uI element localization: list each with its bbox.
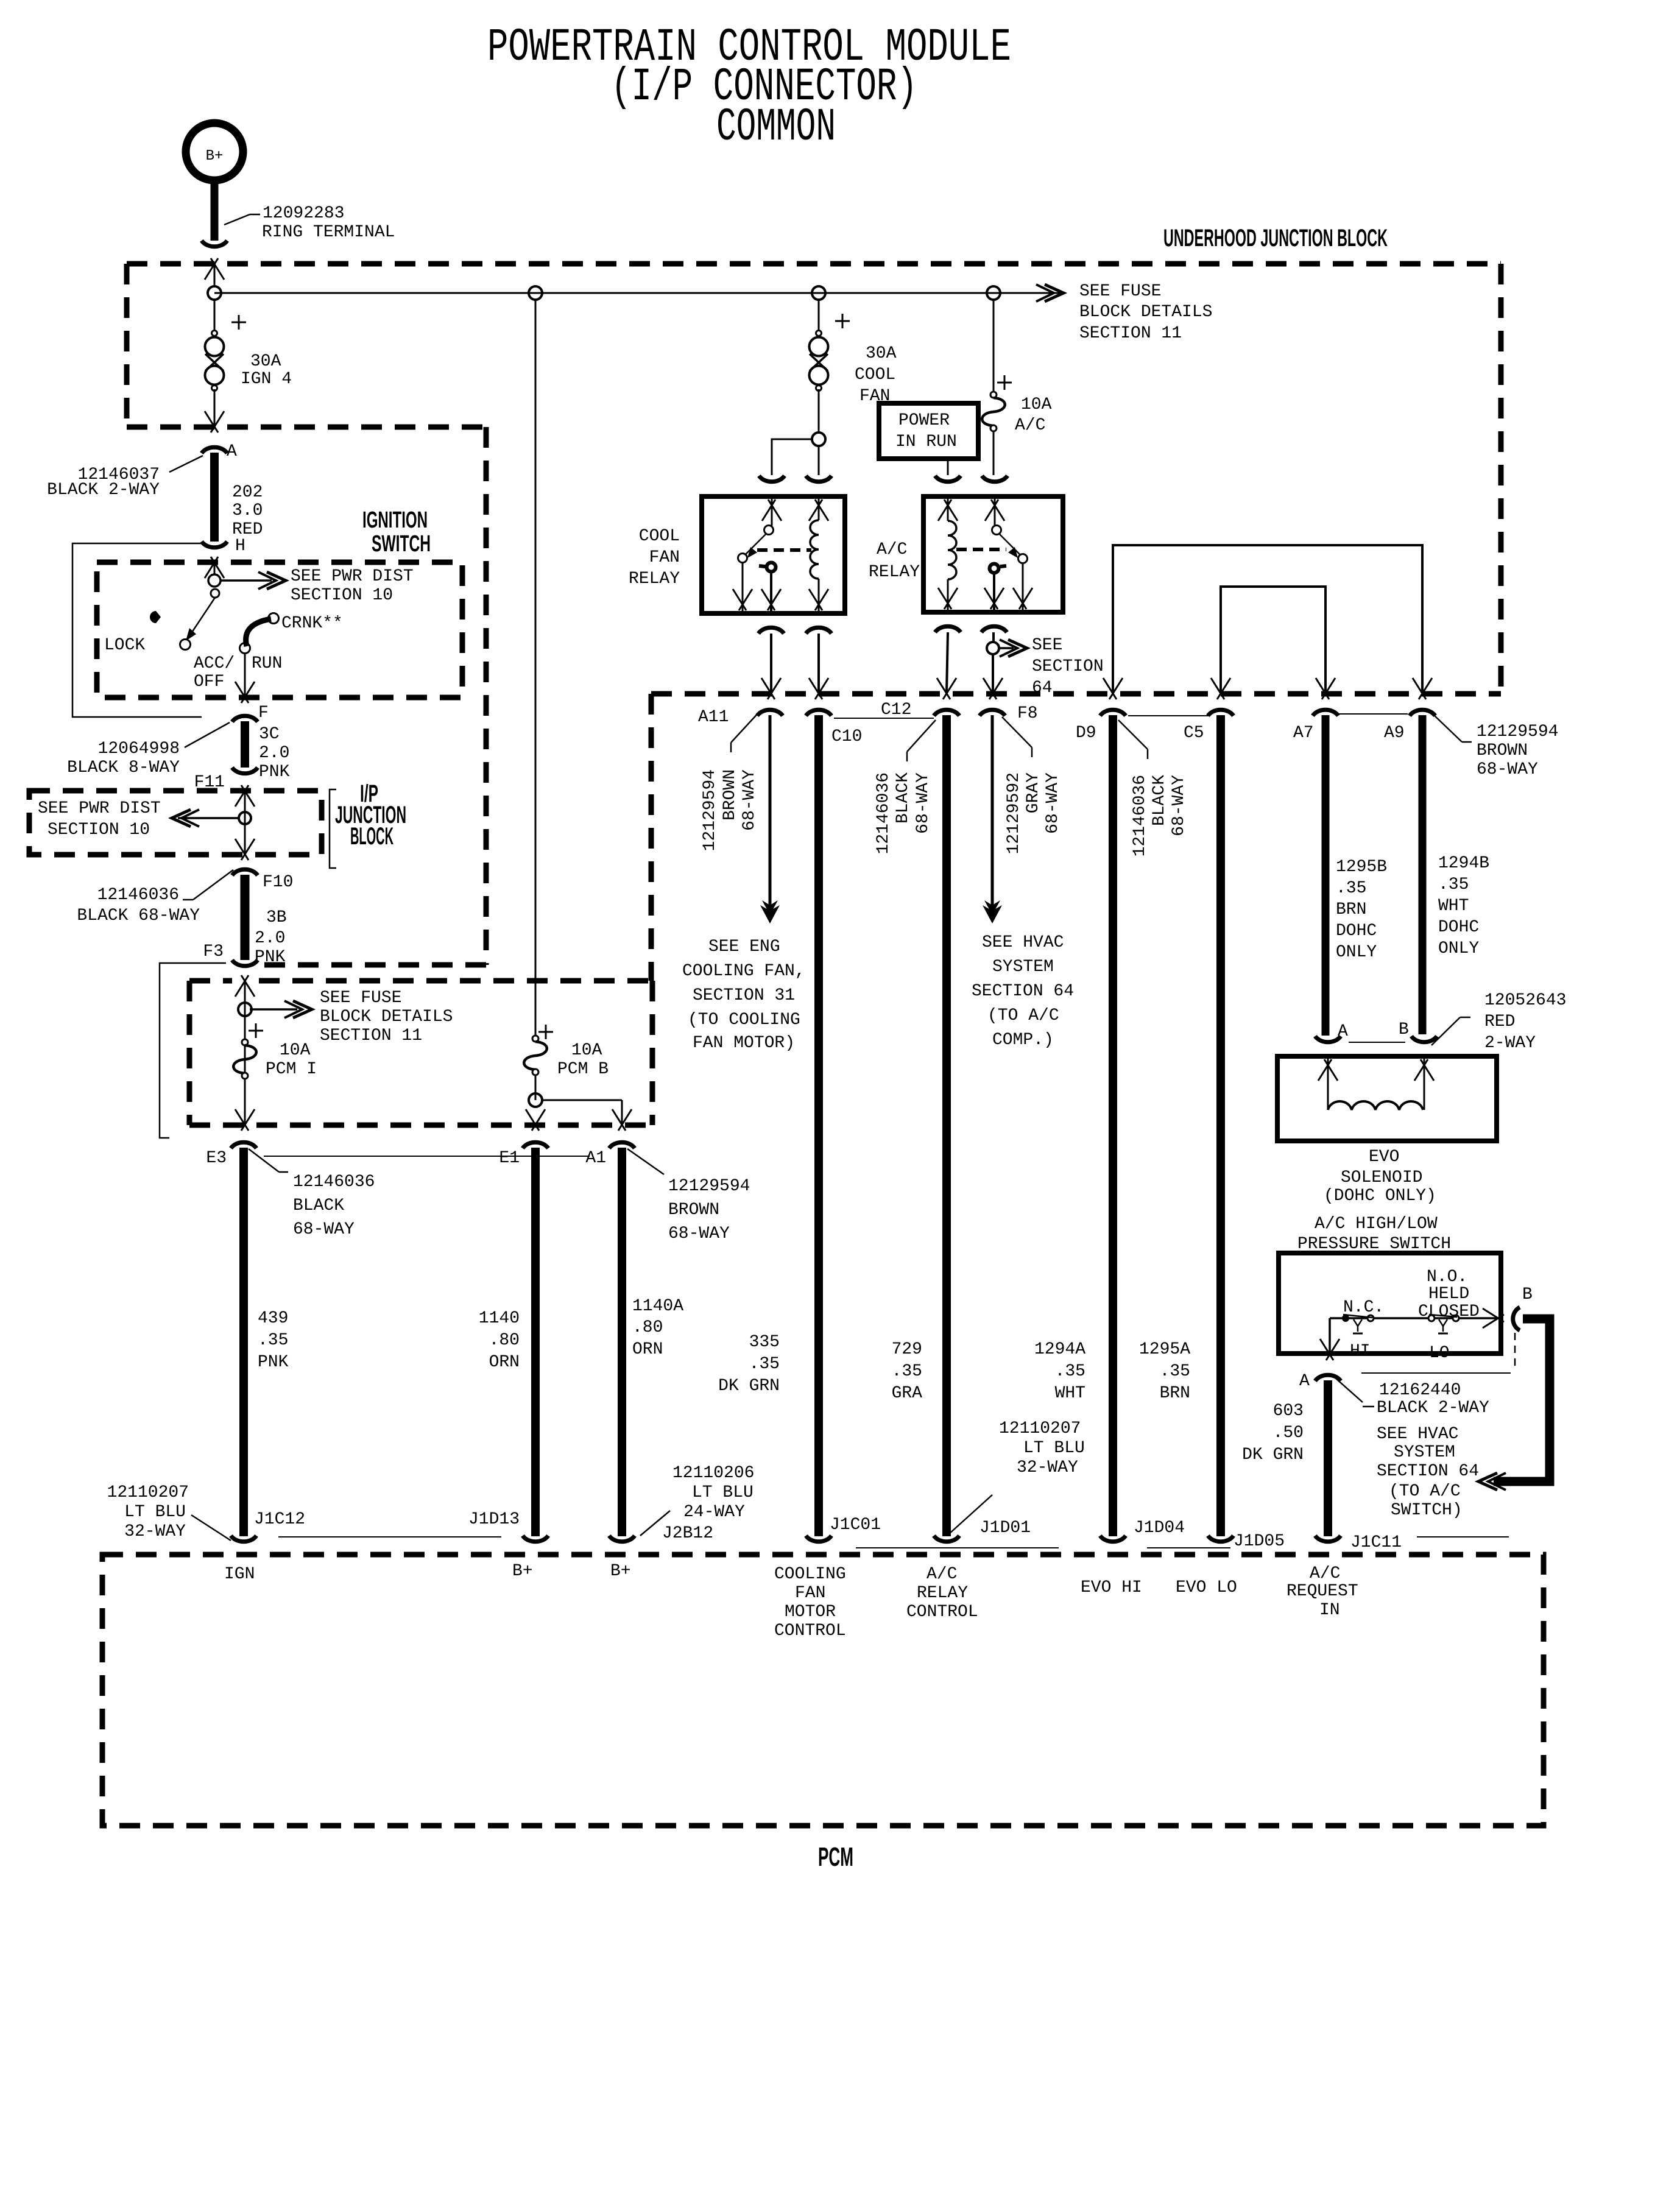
svg-text:(TO COOLING: (TO COOLING [688, 1011, 800, 1029]
connector J1C01 [806, 1536, 831, 1542]
svg-text:729: 729 [892, 1340, 922, 1359]
node bus junction at A/C fuse [987, 286, 1000, 300]
wire 335 .35 DK GRN to PCM [814, 715, 823, 1536]
node bus junction at IGN4 fuse [208, 286, 221, 300]
svg-text:3.0: 3.0 [232, 501, 263, 520]
svg-text:.35: .35 [1055, 1362, 1085, 1381]
svg-text:PNK: PNK [255, 948, 286, 967]
svg-text:SEE FUSE: SEE FUSE [1079, 282, 1161, 301]
svg-text:PCM: PCM [818, 1842, 853, 1872]
svg-text:J1D05: J1D05 [1234, 1532, 1285, 1551]
lock detent mark [150, 611, 161, 623]
svg-text:SECTION 64: SECTION 64 [972, 982, 1074, 1001]
svg-text:SECTION 31: SECTION 31 [693, 986, 795, 1005]
svg-text:E3: E3 [206, 1149, 227, 1168]
svg-text:FAN: FAN [795, 1584, 825, 1603]
svg-text:202: 202 [232, 483, 263, 502]
svg-text:J1C01: J1C01 [830, 1516, 881, 1534]
node PCM B output junction [535, 1075, 537, 1100]
svg-text:RELAY: RELAY [629, 570, 680, 588]
connector A7 [1313, 710, 1338, 716]
svg-text:2-WAY: 2-WAY [1484, 1034, 1536, 1053]
svg-text:B+: B+ [610, 1562, 631, 1581]
wire A11 to cooling fan motor [769, 715, 772, 920]
svg-text:12129594: 12129594 [668, 1177, 750, 1196]
module PCM dashed box [102, 1555, 1544, 1826]
relay A/C RELAY box [923, 496, 1063, 612]
svg-text:SEE PWR DIST: SEE PWR DIST [38, 799, 161, 818]
svg-text:BLACK 68-WAY: BLACK 68-WAY [77, 906, 200, 925]
svg-text:SEE FUSE: SEE FUSE [320, 989, 401, 1008]
svg-text:1295B: 1295B [1336, 858, 1387, 877]
wire 1295A .35 BRN to PCM [1216, 715, 1225, 1536]
svg-text:PNK: PNK [258, 1353, 289, 1372]
connector A of pressure switch [1315, 1375, 1341, 1381]
box POWER IN RUN [879, 403, 978, 459]
cool fan relay actuation link [757, 548, 811, 552]
svg-text:12162440: 12162440 [1379, 1381, 1461, 1400]
wire RUN to connector F [244, 653, 246, 697]
svg-text:12146036: 12146036 [874, 772, 893, 854]
contact CRNK [269, 613, 279, 624]
cool fan relay coil [810, 520, 819, 579]
fuse 10A PCM I [249, 1030, 263, 1032]
underhood junction block fuse sub-box [189, 978, 232, 984]
svg-text:BLACK 8-WAY: BLACK 8-WAY [67, 758, 180, 777]
svg-text:12129592: 12129592 [1004, 772, 1023, 854]
svg-text:N.O.: N.O. [1427, 1268, 1467, 1287]
svg-text:DK GRN: DK GRN [718, 1377, 780, 1396]
node I/P junction block tap [239, 812, 251, 824]
svg-text:REQUEST: REQUEST [1286, 1582, 1358, 1601]
svg-text:439: 439 [258, 1309, 288, 1328]
fuse 30A COOL FAN [816, 331, 822, 336]
svg-text:BLACK 2-WAY: BLACK 2-WAY [47, 481, 160, 500]
arrow to fuse block details [1045, 284, 1064, 302]
svg-text:DOHC: DOHC [1438, 918, 1479, 937]
branch wire to relay switch pin [772, 439, 813, 475]
svg-text:SOLENOID: SOLENOID [1341, 1168, 1422, 1187]
svg-text:J1D13: J1D13 [468, 1510, 520, 1529]
svg-text:3B: 3B [266, 908, 287, 927]
wire 439 .35 PNK [239, 1148, 248, 1536]
wire 3C 2.0 PNK [241, 721, 249, 768]
svg-text:J1C12: J1C12 [254, 1510, 305, 1529]
svg-text:F10: F10 [263, 873, 293, 892]
wire 729 .35 GRA to PCM [942, 715, 951, 1536]
svg-text:A11: A11 [698, 708, 729, 727]
svg-text:A: A [1338, 1022, 1348, 1041]
svg-text:2.0: 2.0 [255, 929, 285, 948]
wire 603 .50 DK GRN [1324, 1380, 1332, 1536]
svg-text:30A: 30A [250, 352, 281, 371]
svg-text:BLOCK DETAILS: BLOCK DETAILS [1079, 303, 1212, 322]
svg-text:.80: .80 [489, 1331, 520, 1350]
node bus junction at PCM B feed [529, 286, 542, 300]
node PCM I tap [238, 1003, 252, 1016]
connector F10 12146036 [232, 869, 258, 875]
svg-text:CRNK**: CRNK** [281, 614, 343, 633]
svg-text:UNDERHOOD JUNCTION BLOCK: UNDERHOOD JUNCTION BLOCK [1163, 225, 1388, 252]
svg-text:OFF: OFF [194, 673, 224, 691]
cool fan relay switch pin [762, 500, 775, 521]
svg-text:B: B [1399, 1020, 1409, 1039]
svg-text:PCM I: PCM I [266, 1060, 317, 1079]
connector J1D13 [523, 1536, 548, 1542]
svg-text:POWER: POWER [898, 411, 950, 430]
svg-text:.35: .35 [749, 1355, 780, 1374]
svg-text:RELAY: RELAY [917, 1584, 968, 1603]
connector F8 [979, 710, 1005, 716]
relay COOL FAN RELAY box [702, 496, 845, 613]
svg-text:J1C11: J1C11 [1350, 1533, 1402, 1552]
svg-text:ORN: ORN [489, 1353, 520, 1372]
wire relay to F8 [992, 632, 995, 643]
connector F 12064998 [232, 716, 258, 722]
svg-text:SWITCH: SWITCH [372, 531, 431, 557]
svg-text:1140: 1140 [479, 1309, 520, 1328]
svg-text:SEE: SEE [1032, 636, 1062, 655]
svg-text:B+: B+ [512, 1562, 533, 1581]
wire 1140 .80 ORN [531, 1148, 540, 1536]
cool fan relay output terminals [758, 627, 784, 634]
svg-text:N.C.: N.C. [1343, 1298, 1384, 1317]
svg-text:68-WAY: 68-WAY [293, 1220, 355, 1239]
svg-text:BLACK: BLACK [1150, 775, 1169, 826]
wire into fuse box [235, 975, 249, 997]
svg-text:COMP.): COMP.) [992, 1031, 1054, 1050]
svg-text:A1: A1 [585, 1149, 606, 1168]
pressure switch internal line [1330, 1317, 1497, 1319]
wire 1294A .35 WHT to PCM [1109, 715, 1117, 1536]
svg-text:EVO HI: EVO HI [1081, 1578, 1142, 1597]
svg-text:12110206: 12110206 [672, 1464, 754, 1483]
node A/C control tap [987, 642, 999, 654]
wire into ignition switch [205, 557, 218, 578]
svg-text:HI: HI [1350, 1342, 1371, 1361]
svg-text:A: A [227, 442, 237, 461]
svg-text:SYSTEM: SYSTEM [1394, 1443, 1455, 1462]
connector end of ring terminal wire [202, 241, 227, 247]
svg-text:CLOSED: CLOSED [1418, 1302, 1480, 1321]
svg-text:335: 335 [749, 1333, 780, 1352]
connector B of EVO solenoid [1411, 1036, 1437, 1042]
fuse 10A PCM B [538, 1031, 553, 1033]
A/C relay actuation link [956, 548, 1006, 551]
svg-text:F3: F3 [203, 942, 224, 961]
svg-text:CONTROL: CONTROL [774, 1622, 846, 1640]
svg-text:A7: A7 [1293, 724, 1314, 743]
F3 bracket [160, 963, 226, 1138]
svg-text:68-WAY: 68-WAY [1170, 775, 1188, 836]
svg-text:(DOHC ONLY): (DOHC ONLY) [1324, 1187, 1436, 1206]
svg-text:B+: B+ [206, 148, 224, 164]
svg-text:COOLING: COOLING [774, 1565, 846, 1584]
svg-text:SEE ENG: SEE ENG [708, 937, 780, 956]
svg-text:RING TERMINAL: RING TERMINAL [262, 223, 395, 242]
svg-text:GRAY: GRAY [1024, 772, 1043, 813]
arrow SEE PWR DIST [221, 579, 272, 582]
svg-text:F8: F8 [1017, 704, 1038, 723]
pressure switch HI contact [1329, 1318, 1331, 1355]
svg-text:PCM B: PCM B [557, 1060, 609, 1079]
wire 1140A .80 ORN [618, 1148, 626, 1536]
svg-text:SECTION 11: SECTION 11 [1079, 324, 1182, 343]
ignition switch assembly bracket [72, 543, 202, 717]
svg-text:COMMON: COMMON [716, 101, 836, 154]
connector A of EVO solenoid [1315, 1036, 1341, 1042]
svg-text:BRN: BRN [1336, 900, 1366, 919]
svg-text:SWITCH): SWITCH) [1391, 1501, 1463, 1520]
svg-text:C10: C10 [831, 727, 862, 746]
svg-text:BROWN: BROWN [721, 769, 739, 821]
svg-text:SEE PWR DIST: SEE PWR DIST [291, 567, 414, 586]
connector C10 [806, 710, 831, 716]
svg-text:12092283: 12092283 [263, 204, 344, 223]
svg-text:BLACK: BLACK [894, 772, 912, 824]
svg-text:.35: .35 [1160, 1362, 1190, 1381]
wire 1294B .35 WHT DOHC ONLY [1419, 715, 1427, 1034]
I/P junction block dashed box [29, 791, 322, 855]
svg-text:BLOCK: BLOCK [350, 823, 394, 850]
connector J1C12 [231, 1536, 256, 1542]
svg-text:10A: 10A [1021, 395, 1052, 414]
svg-text:(TO A/C: (TO A/C [1389, 1482, 1461, 1501]
svg-text:B: B [1522, 1285, 1533, 1304]
cool fan relay common contact [767, 563, 776, 572]
svg-text:.80: .80 [632, 1318, 663, 1337]
svg-text:SECTION 11: SECTION 11 [320, 1026, 422, 1045]
svg-text:.35: .35 [258, 1331, 288, 1350]
cool fan relay NC contact [738, 554, 747, 563]
svg-text:H: H [235, 537, 245, 556]
svg-text:C12: C12 [881, 701, 911, 719]
svg-text:12146036: 12146036 [293, 1173, 375, 1191]
svg-text:RELAY: RELAY [869, 563, 920, 582]
A/C relay common contact [990, 564, 999, 573]
svg-text:SECTION 10: SECTION 10 [48, 821, 150, 839]
svg-text:12146036: 12146036 [97, 886, 179, 905]
bus wire to fuses [214, 292, 1060, 294]
svg-text:IN RUN: IN RUN [895, 432, 957, 451]
node cool fan feed junction [812, 432, 825, 446]
connector J1D04 [1100, 1536, 1126, 1542]
wire power in run to relay coil [947, 461, 949, 475]
connector A1 [609, 1142, 635, 1148]
EVO solenoid coil [1318, 1059, 1332, 1081]
A/C relay switch arm [992, 526, 1001, 535]
svg-text:BLACK 2-WAY: BLACK 2-WAY [1377, 1399, 1489, 1417]
svg-text:12129594: 12129594 [701, 769, 719, 851]
contact RUN [240, 643, 250, 654]
battery terminal B+ [186, 123, 243, 180]
svg-text:A/C: A/C [1015, 416, 1045, 435]
svg-text:LT BLU: LT BLU [124, 1503, 186, 1522]
svg-text:SEE HVAC: SEE HVAC [1377, 1425, 1458, 1444]
svg-text:WHT: WHT [1055, 1384, 1085, 1403]
svg-text:WHT: WHT [1438, 897, 1469, 916]
wire through I/P junction block [235, 785, 249, 807]
svg-text:BROWN: BROWN [1477, 741, 1528, 760]
svg-text:68-WAY: 68-WAY [668, 1224, 730, 1243]
wire bus to A/C fuse [993, 298, 995, 392]
svg-text:IGNITION: IGNITION [362, 507, 428, 533]
svg-text:FAN MOTOR): FAN MOTOR) [693, 1034, 795, 1053]
svg-text:A9: A9 [1384, 724, 1405, 743]
connector E3 [231, 1142, 256, 1148]
svg-text:BLOCK DETAILS: BLOCK DETAILS [320, 1008, 453, 1026]
A/C relay output terminals [935, 626, 961, 632]
label 12162440 BLACK 2-WAY [1361, 1372, 1511, 1374]
wire B+ stem [211, 180, 219, 241]
connector E1 [523, 1142, 548, 1148]
crank spring arc [246, 619, 271, 646]
svg-text:ACC/: ACC/ [194, 654, 235, 673]
cool fan relay switch arm [764, 526, 774, 535]
connector F3 end [232, 960, 258, 966]
svg-text:BROWN: BROWN [668, 1201, 719, 1220]
wire relay to A11 [770, 634, 772, 693]
fuse 30A IGN 4 [212, 331, 217, 336]
contact LOCK [180, 640, 191, 650]
wire EVO HI loop D9 to A9 [1113, 545, 1422, 693]
wire bus to cool fan fuse [818, 298, 820, 332]
wire junction to A1 drop [541, 1100, 622, 1101]
connector A 12146037 [202, 447, 227, 453]
wire bus to IGN4 fuse [214, 298, 216, 332]
svg-text:1294B: 1294B [1438, 854, 1489, 873]
underhood junction block dashed outline [127, 261, 1501, 267]
svg-text:GRA: GRA [892, 1384, 923, 1403]
svg-text:IGN 4: IGN 4 [241, 370, 292, 389]
svg-text:64: 64 [1032, 679, 1053, 697]
connector H end [202, 542, 227, 548]
fuse 10A A/C [990, 392, 997, 398]
svg-text:EVO: EVO [1369, 1148, 1399, 1167]
A/C relay coil pin top [938, 500, 951, 521]
arrow SEE FUSE BLOCK DETAILS [250, 1008, 297, 1011]
wire 1295B .35 BRN DOHC ONLY [1322, 715, 1330, 1036]
svg-text:J2B12: J2B12 [662, 1524, 713, 1543]
A/C relay NO contact [1018, 554, 1028, 563]
svg-text:.50: .50 [1273, 1424, 1304, 1442]
svg-text:C5: C5 [1184, 724, 1204, 743]
connector face line E3-E1 [264, 1156, 590, 1157]
connector A11 [757, 710, 783, 716]
svg-text:A: A [1299, 1372, 1310, 1391]
wire B to A/C switch [1494, 1319, 1550, 1481]
svg-text:1295A: 1295A [1139, 1340, 1190, 1359]
svg-text:10A: 10A [280, 1041, 311, 1060]
A/C relay coil [948, 521, 956, 579]
connector B of pressure switch [1513, 1307, 1520, 1330]
wire IGN4 fuse to block edge [214, 389, 216, 426]
svg-text:12129594: 12129594 [1477, 722, 1558, 741]
svg-text:12064998: 12064998 [98, 740, 180, 758]
ignition switch input contact [208, 574, 221, 587]
svg-text:PNK: PNK [259, 763, 290, 782]
wire 3B 2.0 PNK [241, 875, 250, 960]
connector F11 end [232, 768, 258, 774]
svg-text:BRN: BRN [1160, 1384, 1190, 1403]
svg-text:RUN: RUN [252, 654, 282, 673]
pressure switch LO contact [1428, 1315, 1435, 1321]
svg-text:COOL: COOL [639, 527, 680, 546]
svg-text:.35: .35 [1336, 879, 1366, 898]
svg-text:2.0: 2.0 [259, 744, 289, 763]
connector A9 [1410, 710, 1435, 716]
wire EVO LO loop C5 to A7 [1221, 587, 1325, 693]
svg-text:LOCK: LOCK [104, 636, 145, 655]
wire relay to C12 [947, 632, 948, 693]
svg-text:SECTION 10: SECTION 10 [291, 586, 393, 605]
svg-text:EVO LO: EVO LO [1176, 1578, 1237, 1597]
svg-text:F: F [258, 704, 269, 722]
svg-text:12146036: 12146036 [1131, 775, 1149, 856]
svg-text:12110207: 12110207 [107, 1483, 189, 1502]
svg-text:D9: D9 [1076, 724, 1096, 743]
svg-text:SECTION: SECTION [1032, 657, 1104, 676]
svg-text:MOTOR: MOTOR [785, 1603, 836, 1622]
svg-text:68-WAY: 68-WAY [740, 769, 759, 831]
wire 202 3.0 RED [210, 453, 219, 542]
connector J1D05 [1208, 1536, 1234, 1542]
ignition switch blade to LOCK [189, 598, 215, 636]
svg-text:32-WAY: 32-WAY [124, 1522, 186, 1541]
svg-text:ONLY: ONLY [1336, 943, 1377, 962]
connector C12 [934, 710, 959, 716]
svg-text:1294A: 1294A [1034, 1340, 1085, 1359]
svg-text:SEE HVAC: SEE HVAC [982, 933, 1064, 952]
wire crossing into junction block from ring terminal [205, 258, 218, 280]
connector J1D01 [934, 1536, 959, 1542]
EVO solenoid box [1277, 1056, 1497, 1141]
svg-text:12052643: 12052643 [1484, 991, 1566, 1010]
svg-text:DK GRN: DK GRN [1242, 1446, 1304, 1464]
svg-text:A/C: A/C [926, 1565, 957, 1584]
svg-text:BLACK: BLACK [293, 1196, 344, 1215]
svg-text:(TO A/C: (TO A/C [987, 1006, 1059, 1025]
svg-text:3C: 3C [259, 725, 280, 744]
A/C relay switch pin [985, 500, 998, 521]
svg-text:RED: RED [1484, 1012, 1515, 1031]
I/P junction block bracket [330, 789, 336, 868]
svg-text:12110207: 12110207 [999, 1419, 1081, 1438]
wire bus to PCM B fuse [535, 298, 537, 1036]
wire fuse to relay branch [818, 389, 820, 434]
wire F8 to A/C compressor [991, 715, 994, 920]
svg-text:FAN: FAN [649, 548, 680, 567]
svg-text:DOHC: DOHC [1336, 922, 1377, 941]
svg-text:LT BLU: LT BLU [692, 1483, 754, 1502]
svg-text:ONLY: ONLY [1438, 939, 1479, 958]
svg-text:E1: E1 [499, 1149, 520, 1168]
svg-text:COOLING FAN,: COOLING FAN, [682, 962, 805, 981]
svg-text:CONTROL: CONTROL [906, 1603, 978, 1622]
svg-text:LT BLU: LT BLU [1023, 1439, 1085, 1458]
svg-text:SYSTEM: SYSTEM [992, 958, 1054, 976]
svg-text:ORN: ORN [632, 1340, 663, 1359]
svg-text:A/C: A/C [1310, 1564, 1340, 1583]
svg-text:J1D01: J1D01 [979, 1519, 1031, 1537]
svg-text:.35: .35 [1438, 875, 1469, 894]
ignition switch dashed box [97, 562, 462, 697]
svg-text:IGN: IGN [224, 1565, 255, 1584]
connector J1C11 [1315, 1536, 1341, 1542]
svg-text:68-WAY: 68-WAY [1043, 772, 1062, 834]
svg-text:32-WAY: 32-WAY [1017, 1458, 1078, 1477]
arrow SEE SECTION 64 [998, 647, 1014, 649]
